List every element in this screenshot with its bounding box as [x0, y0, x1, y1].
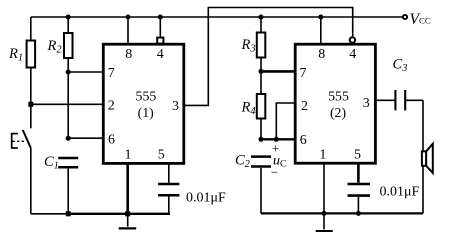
svg-text:R1: R1 — [8, 46, 23, 64]
wire pin4 IC1 — [159, 17, 161, 37]
svg-text:R3: R3 — [241, 37, 256, 55]
wire R1 top lead — [30, 17, 32, 41]
svg-text:5: 5 — [354, 148, 361, 163]
svg-text:7: 7 — [300, 66, 307, 81]
wire pin6 row IC2 — [261, 138, 295, 140]
ground (right) — [323, 213, 325, 229]
svg-text:R2: R2 — [47, 38, 63, 56]
wire pin5 IC2 lead — [357, 163, 360, 182]
terminal Vcc — [403, 15, 407, 19]
node C1/rail junction — [66, 211, 71, 216]
capacitor C3 — [395, 90, 405, 110]
wire pin3 IC1 feedback to pin4 IC2 — [184, 8, 353, 106]
node R2/rail junction — [66, 15, 71, 20]
svg-text:(2): (2) — [330, 105, 346, 121]
wire switch bottom lead — [30, 148, 32, 214]
svg-text:555: 555 — [136, 89, 157, 104]
resistor R4 — [257, 94, 266, 119]
wire pin6 row IC1 — [68, 137, 103, 139]
wire pin7 row IC1 — [68, 71, 103, 73]
node pin2/pin6 junction — [274, 137, 279, 142]
svg-text:7: 7 — [108, 66, 115, 81]
svg-text:2: 2 — [301, 99, 308, 114]
ground (left) — [127, 214, 129, 227]
node R3/R4/pin7 junction — [259, 69, 264, 74]
svg-text:3: 3 — [363, 96, 370, 111]
node pin4/rail junction — [158, 15, 163, 20]
svg-text:4: 4 — [157, 47, 164, 62]
wire R3 bottom lead — [260, 58, 262, 95]
wire pin3 IC2 to C3 — [375, 99, 394, 101]
svg-text:6: 6 — [300, 133, 307, 148]
svg-text:0.01μF: 0.01μF — [380, 185, 420, 200]
svg-text:3: 3 — [172, 99, 179, 114]
node cap/rail junction right — [356, 211, 361, 216]
switch S (pushbutton) — [23, 130, 31, 148]
wire pin2 IC2 L-link — [276, 103, 295, 139]
wire R2 top lead — [67, 17, 69, 33]
svg-text:VCC: VCC — [410, 11, 431, 28]
node pin8 IC2/rail junction — [318, 15, 323, 20]
wire bottom rail left thin part — [31, 213, 68, 215]
svg-text:5: 5 — [158, 148, 165, 163]
svg-text:0.01μF: 0.01μF — [186, 191, 226, 206]
svg-text:555: 555 — [328, 89, 349, 104]
svg-text:C3: C3 — [393, 57, 408, 75]
wire pin8 IC2 — [320, 17, 322, 44]
svg-text:(1): (1) — [138, 105, 154, 121]
node R4/C2/pin6 junction — [259, 137, 264, 142]
wire R1 bottom lead to switch — [30, 68, 32, 129]
wire pin1 IC2 to ground — [323, 163, 325, 213]
wire C1 bottom lead — [67, 169, 69, 214]
svg-text:8: 8 — [125, 47, 132, 62]
wire R4 bottom lead — [260, 119, 262, 140]
capacitor C1 — [58, 158, 78, 167]
wire cap bottom lead right — [357, 197, 359, 214]
wire pin2 row IC1 — [31, 103, 104, 105]
node pin1/rail junction — [125, 211, 130, 216]
node R1/pin2 junction — [28, 102, 33, 107]
wire cap bottom lead — [168, 197, 170, 214]
node R2/pin7 junction — [66, 70, 71, 75]
wire C2 bottom lead — [260, 168, 262, 214]
svg-text:2: 2 — [108, 99, 115, 114]
pin 4 reset circle IC2 — [350, 37, 355, 42]
wire R3 top lead — [260, 17, 262, 33]
wire bottom rail right — [261, 212, 423, 214]
resistor R3 — [257, 33, 266, 58]
node pin1 IC2/rail junction — [322, 211, 327, 216]
svg-text:−: − — [271, 165, 278, 180]
wire pin5 IC1 lead — [168, 163, 170, 182]
pin 4 reset square IC1 — [157, 38, 163, 44]
capacitor 0.01uF (left) — [158, 184, 179, 195]
capacitor 0.01uF (right) — [348, 184, 371, 196]
capacitor C2 — [251, 157, 271, 167]
svg-text:C1: C1 — [44, 154, 59, 172]
node pin8/rail junction — [126, 15, 131, 20]
op-amp U1 555(1) box — [103, 44, 184, 163]
speaker LS — [422, 151, 426, 166]
resistor R2 — [64, 33, 73, 58]
resistor R1 — [27, 41, 35, 68]
svg-text:1: 1 — [319, 148, 326, 163]
wire pin1 IC1 to ground — [126, 163, 129, 213]
svg-text:4: 4 — [349, 47, 356, 62]
wire pin7 row IC2 — [261, 70, 295, 73]
svg-text:8: 8 — [318, 47, 325, 62]
op-amp U2 555(2) box — [295, 44, 375, 163]
svg-text:R4: R4 — [241, 100, 257, 118]
wire C3 to speaker — [406, 100, 423, 213]
node R3/rail junction — [259, 15, 264, 20]
wire bottom rail left thick part — [68, 213, 170, 215]
wire R2 bottom to pin6 node — [67, 58, 69, 138]
wire Vcc rail y=17 — [31, 16, 403, 18]
svg-text:1: 1 — [125, 148, 132, 163]
node pin6/C1 junction — [66, 136, 71, 141]
svg-text:C2: C2 — [235, 153, 251, 171]
wire pin8 IC1 — [127, 17, 129, 44]
svg-text:6: 6 — [108, 133, 115, 148]
